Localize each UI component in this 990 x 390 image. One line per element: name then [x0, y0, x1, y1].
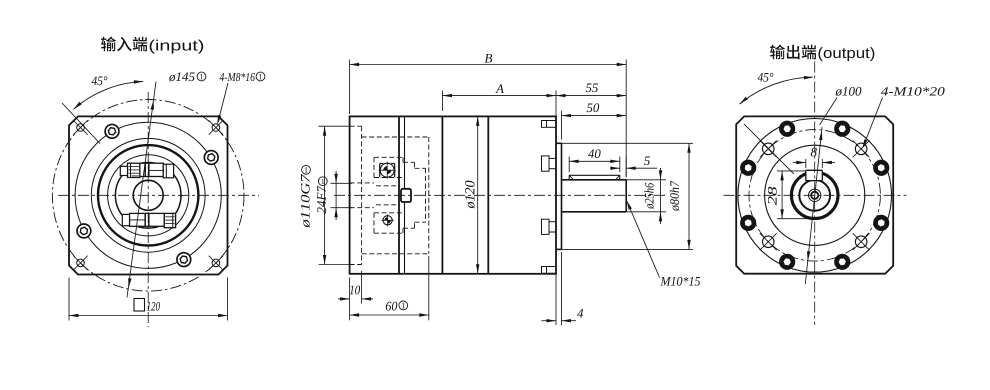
- clamp bottom left box: [122, 214, 129, 225]
- socket head screw at 112.5 deg: [780, 121, 795, 136]
- label 45°: [92, 76, 108, 85]
- socket screw at 119.5 deg: [105, 124, 119, 138]
- dashed circle Ø145 bolt circle: [52, 100, 244, 292]
- socket head screw at 292.5 deg: [835, 254, 850, 269]
- clamp collar circle: [115, 163, 181, 229]
- flange screw upper: [542, 156, 550, 171]
- Ø145 leader diameter line: [127, 82, 156, 298]
- circle Ø110 recess: [75, 122, 221, 268]
- dimension square 120 line: [69, 315, 228, 317]
- label square 120: [134, 299, 145, 312]
- dimension Ø80h7: [562, 142, 694, 144]
- left view vertical centerline: [147, 92, 149, 327]
- socket screw at 31 deg: [204, 151, 218, 165]
- section view body outline: [350, 116, 556, 273]
- dimension 40: [568, 157, 570, 173]
- hidden clamp verticals: [425, 168, 427, 222]
- bolt circle Ø100 dash-dot: [749, 130, 880, 261]
- hidden clamp stepped outline bottom: [374, 232, 403, 234]
- output flange square outline: [736, 116, 893, 273]
- hidden bore Ø110 recess: [350, 125, 362, 127]
- tapped hole M10 at 315 deg: [855, 236, 867, 248]
- coupling key rect: [401, 189, 411, 202]
- label 24F7 circled 1: [317, 186, 326, 214]
- label 4-M10*20: [881, 87, 945, 96]
- clamp top slot: [144, 163, 146, 176]
- input bore circle 24F7: [133, 180, 163, 210]
- flange-body joint line: [398, 116, 400, 273]
- dimension Ø110G7: [319, 125, 350, 127]
- 45 degree arc right: [740, 77, 813, 104]
- dimension 55: [556, 95, 626, 97]
- circle Ø60: [108, 155, 189, 236]
- Ø100 leader: [820, 98, 837, 125]
- label Ø100: [835, 87, 861, 96]
- ring gear joint line: [487, 116, 489, 273]
- housing joint line: [441, 116, 443, 273]
- 4-M8*16 leader: [218, 83, 228, 122]
- hidden clamp stepped outline top: [374, 156, 403, 158]
- left view horizontal centerline: [58, 194, 259, 196]
- center hole drill circle: [811, 192, 818, 199]
- label Ø110G7 circled 1: [301, 174, 310, 228]
- dimension Ø120: [477, 116, 479, 273]
- hidden bore 24F7 lines: [350, 182, 374, 184]
- socket head screw at 337.5 deg: [874, 215, 889, 230]
- clamp bottom screw head: [164, 213, 175, 227]
- shaft inner circle: [799, 180, 830, 211]
- socket head screw at 247.5 deg: [780, 254, 795, 269]
- output boss circle Ø80: [765, 145, 865, 245]
- label 4-M8*16 with circled 1: [220, 73, 255, 81]
- flange screw lower: [542, 219, 550, 234]
- dimension Ø25h6: [626, 179, 666, 181]
- right view horizontal centerline: [724, 194, 907, 196]
- 45 degree arc with arrow: [73, 81, 143, 109]
- middle view centerline: [334, 194, 668, 196]
- shaft keyway side view: [569, 174, 620, 176]
- corner hole M8 with cross: [212, 124, 220, 132]
- label 45° right: [758, 73, 774, 82]
- corner hole M8 with cross: [212, 259, 220, 267]
- dimension 24F7: [331, 182, 353, 184]
- output end view title 输出端(output): [770, 45, 785, 60]
- clamp top left box: [120, 166, 127, 175]
- flange screw top edge: [542, 121, 557, 128]
- 45 degree construction line: [62, 103, 100, 144]
- output pilot circle: [738, 119, 892, 273]
- socket screw at 209 deg: [77, 224, 91, 238]
- socket head screw at 22.5 deg: [874, 160, 889, 175]
- clamp bottom slot: [144, 213, 146, 226]
- corner hole M8 with cross: [77, 259, 85, 267]
- clamp top main block: [140, 163, 164, 176]
- clamp top right box: [163, 164, 173, 178]
- clamp bottom main block: [130, 213, 165, 226]
- dimension A: [441, 91, 443, 112]
- corner hole M8 with cross: [77, 124, 85, 132]
- 4-M10*20 leader: [863, 98, 882, 147]
- socket head screw at 202.5 deg: [741, 215, 756, 230]
- tapped hole M10 at 135 deg: [762, 143, 774, 155]
- M10*15 leader and label: [626, 200, 659, 278]
- tapped hole M10 at 45 deg: [855, 143, 867, 155]
- dimension 60 circled 1: [349, 304, 351, 321]
- dimension square 120 extension lines: [68, 278, 70, 321]
- 45 degree construction line right: [744, 124, 794, 174]
- dimension 10: [349, 278, 351, 304]
- dimension 28: [777, 170, 806, 172]
- circle Ø86: [91, 138, 205, 252]
- dimension 8 keyway: [805, 159, 807, 168]
- socket screw at 299 deg: [177, 253, 191, 267]
- circle Ø78 heavy bore: [98, 145, 198, 245]
- clamp screw section symbol upper: [380, 163, 394, 177]
- input end view title 输入端(input): [101, 37, 116, 52]
- dimension 5: [625, 157, 627, 178]
- label Ø145 with circled 1: [169, 72, 195, 81]
- tapped hole M10 at 225 deg: [762, 236, 774, 248]
- dimension B: [349, 60, 351, 115]
- clamp screw section symbol lower: [383, 216, 392, 225]
- right view vertical centerline: [814, 62, 816, 326]
- dimension 4 plate: [555, 252, 557, 325]
- center hole M10 circle: [809, 189, 821, 201]
- output shaft: [562, 179, 627, 181]
- keyway slot: [806, 170, 823, 180]
- socket head screw at 67.5 deg: [835, 121, 850, 136]
- flange screw bottom edge: [542, 267, 557, 274]
- socket head screw at 157.5 deg: [741, 160, 756, 175]
- input flange square outline: [69, 116, 228, 274]
- dimension 50: [561, 111, 563, 140]
- output boss: [556, 142, 562, 144]
- output shaft circle Ø25 heavy: [791, 172, 838, 219]
- clamp top screw head: [128, 163, 140, 177]
- hidden cavity Ø88: [362, 136, 429, 138]
